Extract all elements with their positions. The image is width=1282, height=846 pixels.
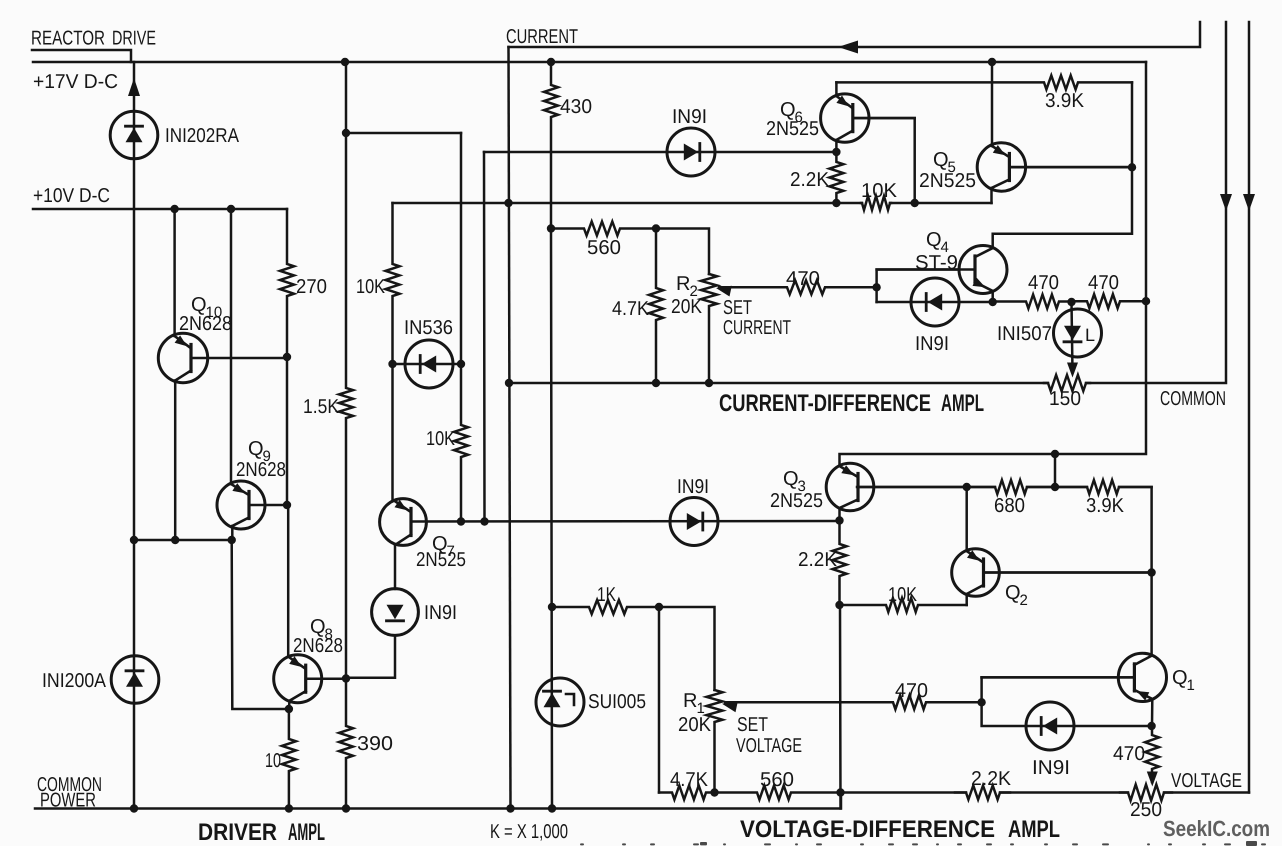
svg-text:2N525: 2N525 bbox=[766, 118, 819, 140]
resistor 470 (Q1 emitter) bbox=[1145, 726, 1159, 782]
diode IN536 bbox=[405, 340, 453, 388]
svg-text:VOLTAGE-DIFFERENCE: VOLTAGE-DIFFERENCE bbox=[740, 816, 995, 843]
resistor 10 (Q8 emitter... collector leg) bbox=[282, 709, 296, 809]
wire Q8 collector drop bbox=[288, 701, 291, 709]
wire x=1132 vertical (3.9K to Q5 base to Q4 collector) bbox=[993, 82, 1132, 248]
svg-text:VOLTAGE: VOLTAGE bbox=[1171, 770, 1242, 792]
svg-text:IN536: IN536 bbox=[404, 317, 453, 339]
svg-text:SET: SET bbox=[737, 714, 768, 736]
svg-text:Q: Q bbox=[933, 149, 949, 171]
svg-text:INI202RA: INI202RA bbox=[165, 125, 240, 147]
wire Q7 base line y=521.5 bbox=[411, 520, 840, 523]
wire Q4 emitter drop bbox=[991, 291, 994, 302]
potentiometer R1 20K bbox=[707, 690, 723, 793]
svg-text:470: 470 bbox=[895, 680, 928, 702]
wire R2 wiper 470 line bbox=[719, 280, 877, 294]
resistor 470 (first, after Q4) bbox=[993, 295, 1072, 309]
arrow Q1 emitter onto 250 pot bbox=[1147, 772, 1158, 787]
wire COMMON POWER rail y=808.5 bbox=[35, 793, 841, 809]
resistor 4.7K (current section) bbox=[649, 229, 663, 384]
wire Q5 base lead bbox=[1010, 166, 1133, 169]
wire rail y=487 mid segment bbox=[1027, 486, 1087, 489]
svg-text:2N525: 2N525 bbox=[919, 170, 976, 192]
svg-text:2.2K: 2.2K bbox=[790, 169, 830, 191]
svg-text:680: 680 bbox=[994, 495, 1025, 517]
R2 wiper arrow bbox=[716, 286, 732, 297]
wire +17V D-C rail bbox=[33, 61, 1146, 64]
svg-text:10K: 10K bbox=[356, 276, 386, 298]
wire vertical x=552 (430 to SUI005 to common power) bbox=[551, 229, 552, 809]
diode SUI005 bbox=[536, 678, 584, 726]
wire reactor-drive label underline bbox=[32, 50, 131, 62]
arrow on CURRENT line (points left) bbox=[838, 41, 858, 54]
svg-text:430: 430 bbox=[560, 96, 592, 118]
arrow up to reactor rail bbox=[128, 78, 140, 96]
wire Q4 base bracket bbox=[877, 270, 959, 303]
svg-text:2N628: 2N628 bbox=[236, 459, 286, 481]
wire bottom rail y=792.5 seg3 bbox=[1164, 791, 1249, 794]
svg-text:390: 390 bbox=[357, 733, 393, 755]
diode INI507 zener bbox=[1054, 309, 1102, 357]
arrow on VOLTAGE vertical bbox=[1243, 194, 1255, 211]
resistor 270 bbox=[280, 209, 294, 357]
wire Q6 emitter / 3.9K line y=82.4 bbox=[835, 82, 838, 96]
wire Q7 collector to diode bbox=[394, 545, 397, 589]
wire Q9 collector drop and link to Q8 bbox=[231, 526, 234, 540]
svg-text:2.2K: 2.2K bbox=[971, 768, 1012, 790]
svg-text:POWER: POWER bbox=[40, 790, 96, 812]
svg-text:R: R bbox=[683, 690, 697, 712]
resistor 10K (Q2 collector line) bbox=[840, 598, 967, 612]
diode IN91 (Q4 emitter bypass) bbox=[911, 278, 959, 326]
resistor 680 bbox=[967, 480, 1055, 494]
svg-text:3.9K: 3.9K bbox=[1045, 90, 1085, 112]
svg-text:SET: SET bbox=[723, 297, 752, 319]
svg-text:Q: Q bbox=[1172, 667, 1188, 689]
svg-text:+17V D-C: +17V D-C bbox=[33, 71, 118, 93]
diode INI200A bbox=[111, 656, 159, 704]
resistor 430 bbox=[544, 62, 558, 229]
transistor Q4 ST-9 bbox=[959, 246, 1007, 294]
wire Q1 emitter drop bbox=[1151, 699, 1154, 726]
resistor 470 (second) bbox=[1072, 294, 1147, 308]
wire IN91 bypass line y=726 bbox=[982, 702, 1152, 726]
svg-text:1K: 1K bbox=[597, 584, 617, 606]
svg-text:20K: 20K bbox=[671, 296, 703, 318]
svg-text:2N525: 2N525 bbox=[416, 549, 466, 571]
wire bottom rail y=792.5 seg2 bbox=[1000, 791, 1128, 794]
wire rail y=454 to Q3 handled above; Q3 collector drop bbox=[838, 508, 841, 521]
diode IN91 (voltage input, to Q3) bbox=[670, 498, 718, 546]
wire Q6 collector drop bbox=[835, 140, 838, 152]
wire rail y=203 right part bbox=[890, 202, 992, 205]
wire Q5 emitter from +17V rail bbox=[991, 62, 994, 146]
resistor 2.2K (Q3 collector) bbox=[833, 521, 847, 606]
wire Q9 emitter drop bbox=[230, 209, 233, 484]
wire COMMON rail y=383 right part and COMMON vertical bbox=[1086, 22, 1226, 383]
resistor 2.2K (Q6 collector) bbox=[829, 152, 843, 203]
wire link x=1055 rail454 to rail487 bbox=[1054, 454, 1057, 487]
wire R1 wiper 470 line to Q1 base node bbox=[725, 695, 982, 709]
svg-text:VOLTAGE: VOLTAGE bbox=[736, 735, 802, 757]
pot resistor 250 (bottom rail) bbox=[1120, 785, 1172, 801]
wire diode bottom to Q8 base node bbox=[346, 635, 395, 677]
wire 560 line y=228.5 with R2 feed bbox=[656, 229, 709, 275]
svg-text:Q: Q bbox=[926, 229, 942, 251]
wire Q1 base lead line bbox=[982, 676, 1135, 679]
wire Q5 collector drop bbox=[990, 188, 993, 203]
svg-text:L: L bbox=[1085, 325, 1095, 345]
wire Q10 collector drop bbox=[174, 381, 177, 541]
junction dots bbox=[341, 58, 349, 66]
wire Q2 collector to 10K bbox=[965, 594, 968, 605]
wire CURRENT output line bbox=[509, 22, 1201, 47]
pot resistor 150 zigzag in COMMON rail bbox=[1044, 375, 1090, 391]
resistor 10K (second column x=461) bbox=[454, 133, 468, 522]
wire Q1 base bracket bbox=[980, 677, 983, 702]
svg-text:Q: Q bbox=[783, 468, 799, 490]
resistor 3.9K lower bbox=[1055, 480, 1152, 494]
resistor 3.9K upper bbox=[836, 75, 1132, 89]
svg-text:IN9I: IN9I bbox=[672, 106, 707, 128]
wire COMMON rail y=383 left part bbox=[509, 382, 1048, 385]
svg-text:INI200A: INI200A bbox=[42, 670, 107, 692]
svg-text:270: 270 bbox=[296, 276, 327, 298]
transistor Q3 2N525 bbox=[826, 463, 874, 511]
svg-text:1.5K: 1.5K bbox=[303, 396, 340, 418]
arrow on COMMON vertical bbox=[1220, 194, 1232, 211]
resistor 2.2K (bottom rail) bbox=[955, 786, 1010, 800]
svg-text:DRIVER: DRIVER bbox=[198, 819, 277, 846]
wire vertical x=484 bbox=[483, 152, 486, 522]
wire x=840 down from 10K junction to bottom rails bbox=[839, 605, 842, 809]
svg-text:R: R bbox=[676, 273, 690, 295]
svg-text:560: 560 bbox=[587, 237, 621, 259]
svg-text:AMPL: AMPL bbox=[288, 819, 325, 846]
svg-text:2N628: 2N628 bbox=[179, 313, 232, 335]
R1 wiper arrow bbox=[722, 702, 738, 713]
resistor 390 bbox=[339, 679, 353, 809]
diode IN91 (Q1 bypass) bbox=[1026, 702, 1074, 750]
svg-text:INI507: INI507 bbox=[997, 323, 1052, 345]
resistor 10K (first column x=392.5) bbox=[386, 203, 400, 501]
svg-text:COMMON: COMMON bbox=[1160, 388, 1226, 410]
bottom edge cut-off text fragments bbox=[580, 841, 1266, 846]
svg-text:IN9I: IN9I bbox=[1032, 757, 1070, 779]
svg-text:470: 470 bbox=[1028, 272, 1059, 294]
wire VOLTAGE output vertical x=1249 bbox=[1248, 22, 1251, 793]
svg-text:Q: Q bbox=[1005, 582, 1021, 604]
wire IN91 line y=302 (Q4 emitter) bbox=[877, 301, 993, 304]
diode IN536 link bbox=[393, 363, 462, 366]
wire right vertical x=1146 down to Q3 emitter rail y=454 bbox=[840, 62, 1147, 466]
svg-text:1: 1 bbox=[1187, 677, 1195, 694]
svg-text:CURRENT-DIFFERENCE: CURRENT-DIFFERENCE bbox=[719, 390, 931, 417]
diode INI507 hang wire and arrow bbox=[1072, 302, 1073, 372]
svg-text:K = X 1,000: K = X 1,000 bbox=[490, 821, 568, 843]
svg-text:4.7K: 4.7K bbox=[670, 769, 709, 791]
transistor Q1 bbox=[1118, 653, 1166, 701]
svg-text:4.7K: 4.7K bbox=[612, 298, 650, 320]
wire rail y=203 left part bbox=[393, 202, 863, 205]
svg-text:250: 250 bbox=[1130, 799, 1162, 821]
svg-text:CURRENT: CURRENT bbox=[723, 317, 791, 339]
svg-text:IN9I: IN9I bbox=[677, 476, 709, 498]
svg-text:560: 560 bbox=[760, 769, 794, 791]
svg-text:470: 470 bbox=[1088, 272, 1119, 294]
svg-text:REACTOR: REACTOR bbox=[31, 28, 105, 50]
transistor Q9 2N628 bbox=[217, 481, 265, 529]
svg-text:ST-9: ST-9 bbox=[915, 252, 958, 274]
wire link y=133 from x=346 to 10K column bbox=[346, 132, 461, 135]
resistor 4.7K (voltage section) bbox=[659, 786, 715, 800]
wire base bus x=287 (Q10/Q9 bases to Q8 emitter) bbox=[287, 357, 288, 657]
resistor 1.5K / 390 vertical chain x=346 bbox=[339, 62, 353, 679]
svg-text:SeekIC.com: SeekIC.com bbox=[1163, 816, 1270, 841]
potentiometer R2 20K bbox=[701, 274, 717, 383]
wire x=659 drop (4.7K left end) bbox=[658, 607, 661, 793]
svg-text:IN9I: IN9I bbox=[915, 333, 949, 355]
transistor Q6 2N525 bbox=[821, 94, 869, 142]
resistor 560 (voltage section) bbox=[715, 786, 841, 800]
wire y=152 line (IN91 to Q6 collector) bbox=[484, 151, 836, 154]
svg-text:CURRENT: CURRENT bbox=[506, 26, 578, 48]
svg-text:2N628: 2N628 bbox=[293, 635, 343, 657]
diode INI202RA bbox=[110, 111, 158, 159]
wire Q6 base to 10K bbox=[853, 118, 915, 203]
wire vertical x=134 (reactor drive / diode chain) bbox=[133, 62, 136, 809]
svg-text:IN9I: IN9I bbox=[424, 602, 457, 624]
transistor Q7 2N525 bbox=[380, 499, 427, 546]
wire Q10 emitter drop bbox=[173, 209, 176, 336]
diode IN91 (below Q7) bbox=[372, 589, 419, 636]
svg-text:2.2K: 2.2K bbox=[798, 549, 838, 571]
svg-text:AMPL: AMPL bbox=[941, 390, 984, 417]
resistor 1K bbox=[552, 600, 659, 614]
wire Q2 emitter drop from 680 junction bbox=[965, 487, 968, 551]
svg-text:AMPL: AMPL bbox=[1008, 816, 1060, 843]
wire +10V D-C rail bbox=[33, 208, 287, 211]
wire main vertical x=509 (current set bus) bbox=[509, 47, 511, 809]
resistor 560 (current section) bbox=[551, 222, 656, 236]
wire bottom rail y=792.5 seg1 bbox=[841, 791, 967, 794]
corner mark inside SUI005 bbox=[566, 694, 574, 705]
svg-text:DRIVE: DRIVE bbox=[112, 28, 156, 50]
svg-text:470: 470 bbox=[1113, 743, 1145, 765]
transistor Q8 2N628 bbox=[274, 655, 322, 703]
svg-text:2N525: 2N525 bbox=[770, 490, 823, 512]
svg-text:3.9K: 3.9K bbox=[1086, 495, 1125, 517]
transistor Q2 2N525 bbox=[952, 549, 1000, 597]
wire 680/3.9K rail y=487 left segment (Q3 base) bbox=[857, 486, 995, 489]
svg-text:10K: 10K bbox=[888, 584, 918, 606]
svg-text:150: 150 bbox=[1049, 388, 1081, 410]
resistor 10K in rail y=203 bbox=[861, 196, 891, 210]
svg-text:SUI005: SUI005 bbox=[588, 691, 646, 713]
svg-text:2: 2 bbox=[1020, 592, 1028, 609]
transistor Q10 2N628 bbox=[158, 333, 207, 382]
svg-text:470: 470 bbox=[786, 268, 820, 290]
wire 1K line y=607 with R1 feed bbox=[659, 607, 715, 690]
svg-text:10: 10 bbox=[265, 750, 281, 772]
wire rail y=487 right segment and drop x=1151.6 bbox=[1119, 487, 1152, 656]
svg-text:10K: 10K bbox=[426, 428, 456, 450]
wire Q2 base lead bbox=[984, 571, 1152, 574]
svg-text:10K: 10K bbox=[861, 180, 898, 202]
wire rail y=540 (Q10/Q9 collectors) bbox=[134, 539, 232, 542]
transistor Q5 2N525 bbox=[977, 143, 1025, 191]
diode IN91 (top, to Q6) bbox=[667, 128, 715, 176]
svg-text:20K: 20K bbox=[678, 714, 712, 736]
svg-text:Q: Q bbox=[248, 438, 264, 460]
svg-text:+10V D-C: +10V D-C bbox=[33, 185, 110, 207]
